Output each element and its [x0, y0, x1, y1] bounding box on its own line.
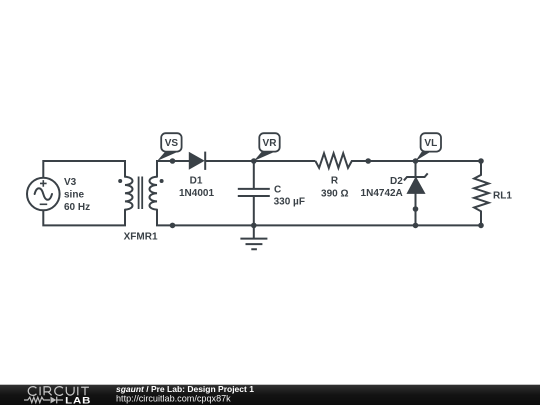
wire: D2 to bottom rail	[415, 209, 417, 225]
svg-text:D2: D2	[390, 176, 403, 187]
svg-text:60 Hz: 60 Hz	[64, 202, 90, 213]
logo doodle: diode	[51, 397, 57, 404]
svg-text:XFMR1: XFMR1	[124, 231, 158, 242]
flag VL	[416, 133, 441, 161]
svg-text:V3: V3	[64, 177, 77, 188]
svg-text:sine: sine	[64, 190, 84, 201]
svg-text:R: R	[331, 176, 339, 187]
svg-text:RL1: RL1	[493, 190, 512, 201]
svg-text:http://circuitlab.com/cpqx87k: http://circuitlab.com/cpqx87k	[116, 393, 231, 403]
node VL junction dot	[413, 158, 419, 164]
transformer XFMR1	[118, 177, 163, 243]
voltage source V3	[27, 177, 90, 213]
resistor RL1	[474, 161, 512, 225]
svg-text:VL: VL	[424, 138, 437, 149]
node: R right pin junction	[365, 158, 371, 164]
wire: node VL to RL1 top	[416, 160, 482, 162]
capacitor C	[238, 161, 305, 225]
node: capacitor bottom junction	[251, 223, 257, 229]
footer bar	[0, 385, 540, 405]
flag VS	[157, 133, 181, 161]
primary phase dot	[118, 179, 122, 183]
primary coil	[125, 177, 133, 210]
node: RL1 top junction	[478, 158, 484, 164]
logo wordmark LAB	[65, 396, 91, 405]
diode D1	[179, 152, 214, 199]
svg-text:1N4742A: 1N4742A	[361, 188, 403, 199]
wire: D1 cathode to node VR	[205, 160, 254, 162]
zener triangle	[407, 177, 424, 193]
wire: R to node VL	[368, 160, 415, 162]
zener diode D2	[361, 161, 428, 209]
node: RL1 bottom junction	[478, 223, 484, 229]
resistor R	[315, 153, 368, 199]
core	[139, 177, 143, 210]
wire: node VR to resistor R	[254, 160, 316, 162]
node: D2 bottom pin junction	[413, 206, 419, 212]
svg-text:390 Ω: 390 Ω	[321, 188, 348, 199]
wire: secondary top to D1 anode	[157, 161, 190, 177]
node: D2 branch bottom junction	[413, 223, 419, 229]
svg-text:C: C	[274, 184, 281, 195]
node: bottom rail junction below D1	[170, 223, 176, 229]
zener bar with bent ends	[404, 173, 428, 180]
wire: secondary bottom rail	[157, 210, 481, 226]
svg-text:LAB: LAB	[65, 396, 91, 405]
CircuitLab logo wordmark CIRCUIT	[28, 387, 89, 396]
logo doodle: resistor zigzag	[24, 397, 50, 402]
secondary coil	[150, 177, 158, 210]
ground	[240, 225, 267, 249]
svg-text:330 µF: 330 µF	[274, 196, 305, 207]
svg-text:1N4001: 1N4001	[179, 188, 214, 199]
node VR junction dot	[251, 158, 257, 164]
flag VR	[254, 133, 280, 161]
secondary phase dot	[160, 179, 164, 183]
node: D1 anode junction	[170, 158, 176, 164]
svg-text:VR: VR	[263, 138, 278, 149]
svg-text:D1: D1	[190, 176, 203, 187]
wire: bottom of primary loop from V3 to transformer primary	[43, 210, 125, 226]
svg-text:VS: VS	[165, 138, 179, 149]
wire: top of primary loop from V3 to transformer primary	[43, 161, 125, 178]
